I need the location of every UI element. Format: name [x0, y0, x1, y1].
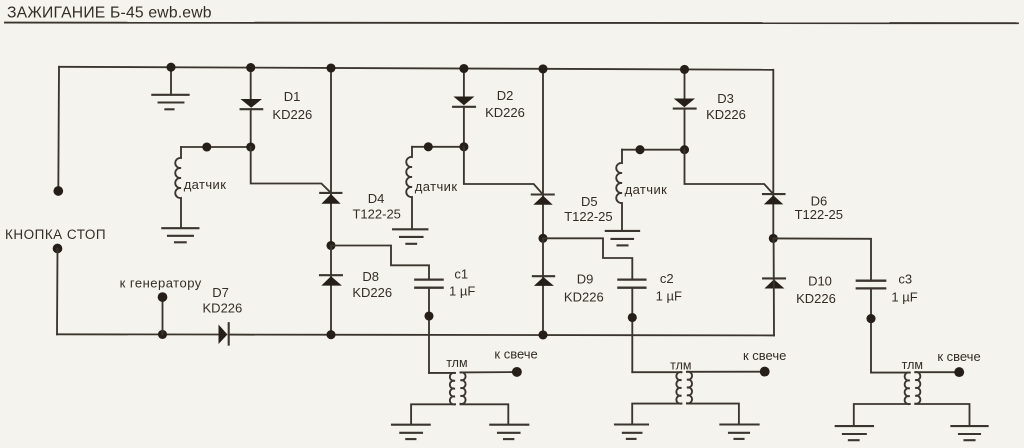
svg-text:T122-25: T122-25	[564, 209, 612, 224]
junction D9 bottom bus	[538, 330, 547, 339]
svg-text:D4: D4	[368, 191, 385, 206]
wire к генератору drop	[162, 297, 164, 334]
junction D1 датчик1 node	[246, 142, 255, 151]
svg-text:KD226: KD226	[796, 291, 836, 306]
junction к генератору on bottom bus	[158, 330, 167, 339]
title underline rule	[5, 22, 1018, 25]
svg-text:1 µF: 1 µF	[891, 290, 917, 305]
node к свече terminal 3	[954, 367, 964, 377]
svg-text:D8: D8	[362, 269, 379, 284]
node stop button top terminal	[53, 186, 63, 196]
svg-text:D1: D1	[284, 89, 301, 104]
svg-text:КНОПКА СТОП: КНОПКА СТОП	[5, 227, 106, 242]
svg-text:KD226: KD226	[564, 289, 604, 304]
ground датчик2	[393, 229, 427, 244]
wire D5 cathode to c2	[543, 238, 632, 279]
ground датчик3	[606, 231, 639, 246]
ground тлм3 primary	[836, 426, 873, 440]
capacitor c1	[415, 280, 442, 373]
capacitor c3	[857, 281, 885, 373]
svg-text:к генератору: к генератору	[120, 275, 202, 290]
transformer тлм2	[632, 372, 760, 424]
diode D10	[763, 238, 785, 335]
inductor датчик3	[616, 150, 622, 231]
node stop button bottom terminal	[53, 244, 63, 254]
svg-text:к свече: к свече	[743, 348, 786, 363]
diode D9	[533, 238, 554, 335]
svg-text:тлм: тлм	[446, 356, 467, 370]
svg-text:T122-25: T122-25	[795, 207, 843, 222]
svg-text:ЗАЖИГАНИЕ Б-45 ewb.ewb: ЗАЖИГАНИЕ Б-45 ewb.ewb	[7, 5, 212, 22]
junction D3 top bus	[680, 65, 689, 74]
svg-text:D3: D3	[717, 91, 734, 106]
junction D2 top bus	[459, 64, 468, 73]
wire bottom bus right segment	[229, 334, 774, 337]
ground тлм1 secondary	[490, 425, 528, 439]
svg-text:c2: c2	[660, 271, 674, 286]
svg-text:к свече: к свече	[937, 349, 980, 364]
wire датчик2 to D2 node	[412, 146, 464, 148]
svg-text:D5: D5	[581, 194, 598, 209]
ground тлм2 secondary	[720, 425, 758, 439]
inductor датчик1	[175, 147, 181, 228]
svg-text:T122-25: T122-25	[352, 207, 400, 222]
ground датчик1	[162, 228, 198, 242]
wire датчик3 to D3 node	[622, 149, 685, 151]
junction D8 bottom bus	[326, 330, 335, 339]
junction on датчик2 wire	[424, 142, 433, 151]
diode D1	[241, 68, 263, 147]
node к свече terminal 2	[760, 367, 770, 377]
wire gate of D5 from датчик2 node	[464, 147, 543, 195]
thyristor D6 T122-25	[763, 70, 785, 239]
junction D5 cathode node	[538, 234, 547, 243]
diode D8	[320, 246, 342, 335]
svg-text:D7: D7	[212, 285, 229, 300]
wire gate of D6 from датчик3 node	[685, 150, 774, 194]
junction D2 датчик2 node	[459, 142, 468, 151]
svg-text:датчик: датчик	[625, 182, 668, 197]
svg-text:c3: c3	[898, 272, 912, 287]
junction on c1 output wire	[424, 311, 433, 320]
ground тлм3 secondary	[951, 426, 987, 440]
wire top supply bus	[59, 67, 773, 70]
diode D2	[453, 69, 475, 147]
junction D3 датчик3 node	[680, 145, 689, 154]
node к генератору terminal	[158, 292, 168, 302]
svg-text:KD226: KD226	[352, 285, 392, 300]
wire stop button to bottom bus	[56, 249, 59, 335]
svg-text:KD226: KD226	[485, 105, 525, 120]
junction D5 top bus	[538, 64, 547, 73]
inductor датчик2	[406, 147, 412, 229]
ground тлм2 primary	[615, 425, 648, 439]
junction D4 cathode node	[326, 241, 335, 250]
svg-text:датчик: датчик	[184, 177, 227, 192]
transformer тлм3	[854, 372, 970, 425]
svg-text:тлм: тлм	[670, 358, 691, 372]
wire датчик1 to D1 node	[181, 146, 251, 148]
wire bottom bus left segment	[57, 333, 219, 335]
thyristor D5 T122-25	[532, 69, 554, 238]
wire left vertical drop to stop button	[57, 67, 60, 191]
thyristor D4 T122-25	[320, 68, 341, 246]
svg-text:1 µF: 1 µF	[449, 283, 475, 298]
svg-text:1 µF: 1 µF	[656, 289, 682, 304]
junction D4 top bus	[326, 63, 335, 72]
junction D1 top bus	[246, 63, 255, 72]
svg-text:D9: D9	[577, 272, 594, 287]
junction top bus ground	[166, 63, 175, 72]
ground top bus at x=171	[152, 67, 188, 109]
svg-text:D2: D2	[497, 88, 514, 103]
wire gate of D4 from датчик1 node	[251, 147, 331, 193]
wire D6 cathode to c3	[773, 238, 871, 280]
svg-text:KD226: KD226	[272, 107, 312, 122]
svg-text:KD226: KD226	[203, 301, 243, 316]
junction on c3 output wire	[866, 314, 875, 323]
junction on датчик3 wire	[635, 145, 644, 154]
wire D4 cathode to c1	[331, 246, 429, 280]
ground тлм1 primary	[392, 425, 430, 439]
svg-text:KD226: KD226	[706, 107, 746, 122]
junction on c2 output wire	[628, 313, 637, 322]
svg-text:к свече: к свече	[494, 346, 537, 361]
diode D3	[674, 69, 696, 149]
junction on датчик1 wire	[202, 142, 211, 151]
svg-text:датчик: датчик	[415, 179, 458, 194]
svg-text:c1: c1	[454, 266, 468, 281]
capacitor c2	[618, 280, 645, 373]
node к свече terminal 1	[512, 367, 522, 377]
transformer тлм1	[411, 372, 512, 423]
svg-text:D10: D10	[808, 273, 832, 288]
svg-text:тлм: тлм	[902, 358, 923, 372]
diode D7	[219, 323, 229, 344]
junction D6 cathode node	[769, 234, 778, 243]
